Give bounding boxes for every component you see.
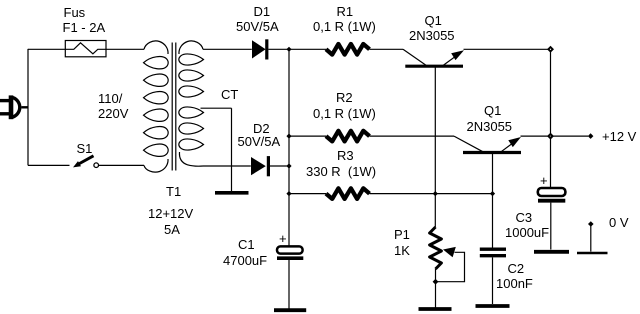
- ground C1: [274, 308, 306, 312]
- label 0,1 R (1W) (R2): [313, 107, 376, 120]
- node right bus top: [547, 46, 554, 53]
- label CT: [221, 88, 238, 101]
- capacitor C3 (1000uF electrolytic): [538, 188, 566, 201]
- wire C1 to ground: [288, 260, 290, 309]
- wire Q1 base vertical: [434, 66, 436, 193]
- label 50V/5A (D2): [238, 135, 281, 148]
- wire plug to left bus: [22, 106, 29, 108]
- label C1: [238, 238, 255, 251]
- label 110/: [98, 92, 122, 105]
- wire C3 to ground: [550, 203, 552, 250]
- label T1: [166, 185, 181, 198]
- wire C2 bottom: [492, 257, 494, 304]
- wire secondary bottom to D2: [203, 165, 251, 167]
- wire right bus vertical: [550, 49, 552, 187]
- wire S1 to transformer: [99, 164, 144, 166]
- label 0 V: [609, 216, 629, 229]
- label + (C3): [540, 174, 548, 187]
- wire P1 bottom: [435, 269, 437, 308]
- switch S1: [73, 156, 98, 168]
- label D1: [254, 5, 271, 18]
- ground C2: [476, 304, 510, 308]
- fuse F1 element: [65, 43, 106, 54]
- wire S1 left: [28, 164, 70, 166]
- wire left DC bus vertical: [288, 49, 290, 246]
- label F1 - 2A: [63, 21, 106, 34]
- node R3 junction: [286, 191, 291, 196]
- diode D1: [252, 39, 268, 59]
- wire R3 to base node: [370, 193, 436, 195]
- resistor R1: [326, 44, 370, 55]
- resistor R3: [326, 188, 370, 199]
- label R2: [336, 91, 353, 104]
- label 2N3055 (lower): [467, 120, 513, 133]
- wire D1 to node: [268, 48, 289, 50]
- label 5A: [164, 223, 180, 236]
- label +12 V: [602, 130, 636, 143]
- wire CT vertical: [231, 108, 233, 191]
- diode D2: [251, 156, 270, 176]
- fuse F1 body: [65, 41, 106, 57]
- capacitor C2 (100nF): [480, 249, 506, 256]
- wire node to R2: [289, 135, 326, 137]
- wire node to R1: [289, 48, 326, 50]
- label 1K: [394, 244, 410, 257]
- label S1: [77, 142, 93, 155]
- ground 0V: [577, 252, 608, 255]
- node D2 junction: [286, 163, 291, 168]
- node P1 wiper junction: [433, 279, 439, 285]
- wire Q1 emitter to right bus: [464, 48, 551, 50]
- ground P1: [419, 307, 452, 311]
- node D1/R1 junction: [286, 47, 291, 52]
- wire 0V: [590, 225, 592, 252]
- transformer T1 primary winding: [144, 41, 169, 172]
- wire node to R3: [289, 193, 326, 195]
- wire D2 to node: [270, 165, 289, 167]
- wire C2 top: [492, 194, 494, 248]
- wire P1 top: [434, 194, 436, 227]
- label 12+12V: [148, 207, 193, 220]
- wire base node to Q2 base: [435, 193, 492, 195]
- wire R1 to Q1: [370, 48, 404, 50]
- potentiometer P1: [430, 227, 465, 282]
- label 4700uF: [223, 254, 267, 267]
- terminal +12V: [588, 133, 594, 139]
- wire secondary top to D1: [203, 48, 252, 50]
- label 0,1 R (1W) (R1): [313, 20, 376, 33]
- wire fuse to transformer: [106, 48, 144, 50]
- node base/R3 junction: [433, 191, 438, 196]
- terminal 0V: [588, 221, 594, 227]
- label C3: [516, 211, 533, 224]
- node Q2 base junction: [490, 191, 495, 196]
- wire CT tap: [201, 107, 232, 109]
- plug P (AC mains plug): [0, 95, 20, 119]
- label Q1 (upper): [425, 14, 442, 27]
- label 1000uF: [505, 226, 549, 239]
- label 330 R (1W): [306, 165, 376, 178]
- label 50V/5A (D1): [236, 20, 279, 33]
- wire R2 to Q2: [370, 135, 455, 137]
- label C2: [508, 262, 525, 275]
- label R1: [337, 5, 354, 18]
- wire Q2 emitter to right bus: [521, 135, 551, 137]
- label D2: [253, 122, 270, 135]
- capacitor C1 (4700uF electrolytic): [277, 246, 303, 258]
- label 100nF: [496, 277, 533, 290]
- wire +12V output: [551, 135, 589, 137]
- label 2N3055 (upper): [409, 29, 455, 42]
- label 220V: [98, 107, 128, 120]
- label R3: [337, 149, 354, 162]
- resistor R2: [326, 131, 370, 142]
- node R2 junction: [286, 134, 291, 139]
- ground C3: [534, 250, 569, 254]
- node +12V junction: [547, 133, 554, 140]
- transistor Q2 (lower 2N3055): [454, 136, 521, 152]
- transformer T1 core: [171, 43, 173, 171]
- wire top to fuse: [28, 48, 65, 50]
- label + (C1): [279, 232, 287, 245]
- label Fus: [64, 6, 86, 19]
- wire left vertical bus: [27, 49, 29, 165]
- wire Q2 base vertical: [492, 153, 494, 194]
- ground CT: [215, 191, 249, 195]
- label P1: [394, 228, 410, 241]
- label Q1 (lower): [484, 104, 501, 117]
- transistor Q1 (upper 2N3055): [403, 49, 464, 66]
- transformer T1 secondary winding: [179, 41, 204, 166]
